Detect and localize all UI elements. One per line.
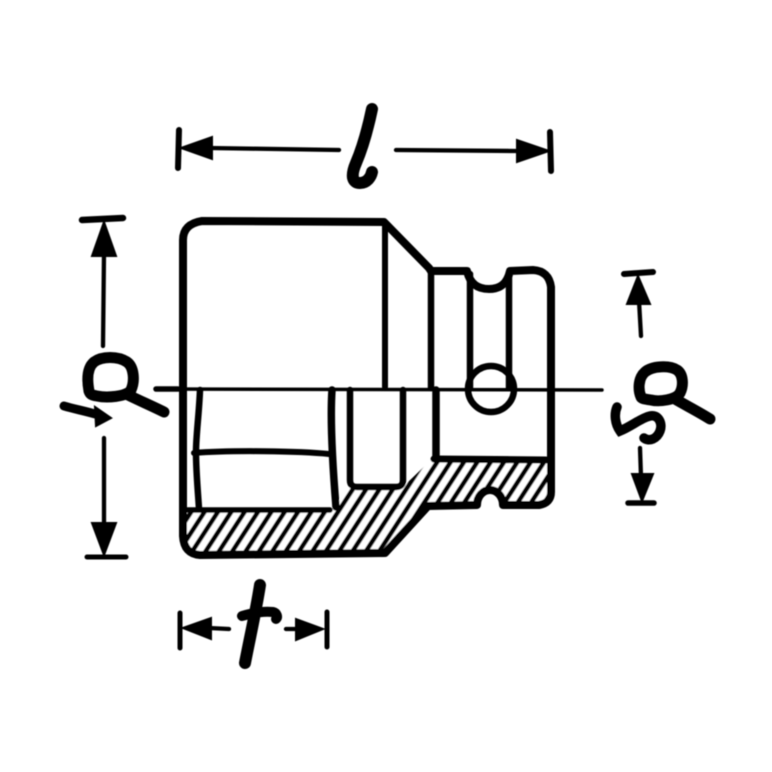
label d1 stem [126, 394, 164, 412]
dimension d1: bottom arrow [92, 523, 116, 555]
hex flat line [194, 451, 329, 454]
dimension t: right arrow [296, 619, 323, 640]
groove left edge [467, 274, 474, 388]
label l [353, 109, 372, 183]
dimension d2: upper line [639, 301, 641, 336]
dimension d2: top tick [624, 272, 653, 274]
groove right edge [506, 274, 513, 388]
pin hole circle [468, 366, 514, 412]
middle cavity [350, 390, 403, 487]
label d2 stem [675, 399, 710, 419]
dimension t: left tick [178, 613, 183, 648]
dimension t: left arrow [183, 618, 211, 639]
label d1 bowl [88, 358, 133, 397]
dimension l: right arrow [517, 140, 549, 162]
chamfer face edge [382, 225, 388, 387]
centerline [156, 389, 602, 390]
label d2 bowl [639, 367, 682, 401]
label d2 subscript 2 [615, 407, 661, 440]
dimension l: right tick [550, 132, 551, 171]
dimension d2: bottom tick [628, 500, 654, 506]
dimension l: right line [396, 150, 516, 151]
dimension d1: top tick [82, 218, 123, 220]
dimension d2: lower line [640, 448, 641, 477]
dimension d2: top arrow [627, 276, 650, 304]
dimension d2: bottom arrow [632, 474, 653, 501]
dimension d1: bottom tick [87, 555, 126, 560]
body outer outline [183, 221, 551, 555]
square hole left wall [432, 390, 440, 456]
dimension l: left line [209, 148, 339, 150]
label d1 subscript 1 [64, 406, 95, 414]
dimension t: right line [286, 627, 298, 631]
hatch top line [187, 507, 330, 513]
dimension d1: lower line [102, 438, 106, 526]
dimension t: left line [209, 628, 229, 629]
dimension l: left arrow [181, 137, 212, 159]
hatched section fill [185, 458, 550, 554]
dimension d1: upper line [103, 253, 104, 346]
drive neck left edge [428, 271, 435, 388]
hex entry chamfer wall [196, 390, 200, 509]
hex end wall [331, 390, 336, 507]
dimension t: right tick [325, 612, 330, 647]
square hole bottom [434, 459, 546, 460]
label t [245, 585, 260, 663]
dimension d1: top arrow [92, 222, 116, 256]
dimension l: left tick [178, 130, 179, 168]
